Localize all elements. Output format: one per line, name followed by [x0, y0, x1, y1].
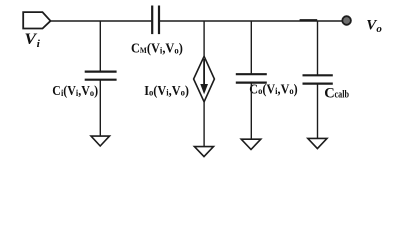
wire Io bottom — [203, 102, 205, 147]
capacitor Co — [236, 74, 267, 82]
wire Ccalb top — [317, 21, 319, 75]
wire Co top — [250, 21, 252, 74]
ground under Ci — [91, 136, 110, 146]
wire Ci bottom — [99, 80, 101, 136]
capacitor Ci — [85, 72, 117, 80]
wire Co bottom — [250, 83, 252, 140]
output node Vo (circle) — [342, 16, 351, 25]
wire Io top — [203, 21, 205, 56]
arrow inside Io — [203, 59, 205, 85]
ground under Ccalb — [308, 138, 327, 148]
svg-text:calb: calb — [335, 89, 350, 101]
label Ci(Vi,Vo) — [52, 84, 98, 99]
wire Ccalb bottom — [317, 84, 319, 139]
label Vi — [24, 30, 40, 50]
capacitor CM — [152, 6, 159, 35]
current source Io (diamond) — [194, 56, 215, 102]
ground under Co — [241, 139, 261, 149]
capacitor Ccalb — [303, 75, 333, 83]
label CM(Vi,Vo) — [131, 40, 183, 56]
label Co(Vi,Vo) — [249, 82, 297, 97]
svg-text:C: C — [324, 86, 334, 102]
wire Ci top — [99, 21, 101, 72]
input port Vi — [23, 12, 50, 28]
wire segment (thick) before Ccalb junction — [300, 19, 318, 21]
ground under Io — [194, 147, 213, 157]
wire top right (CM right plate to output node) — [159, 20, 342, 22]
label Io(Vi,Vo) — [144, 84, 189, 99]
wire top left (port tip to CM left plate) — [51, 20, 153, 22]
